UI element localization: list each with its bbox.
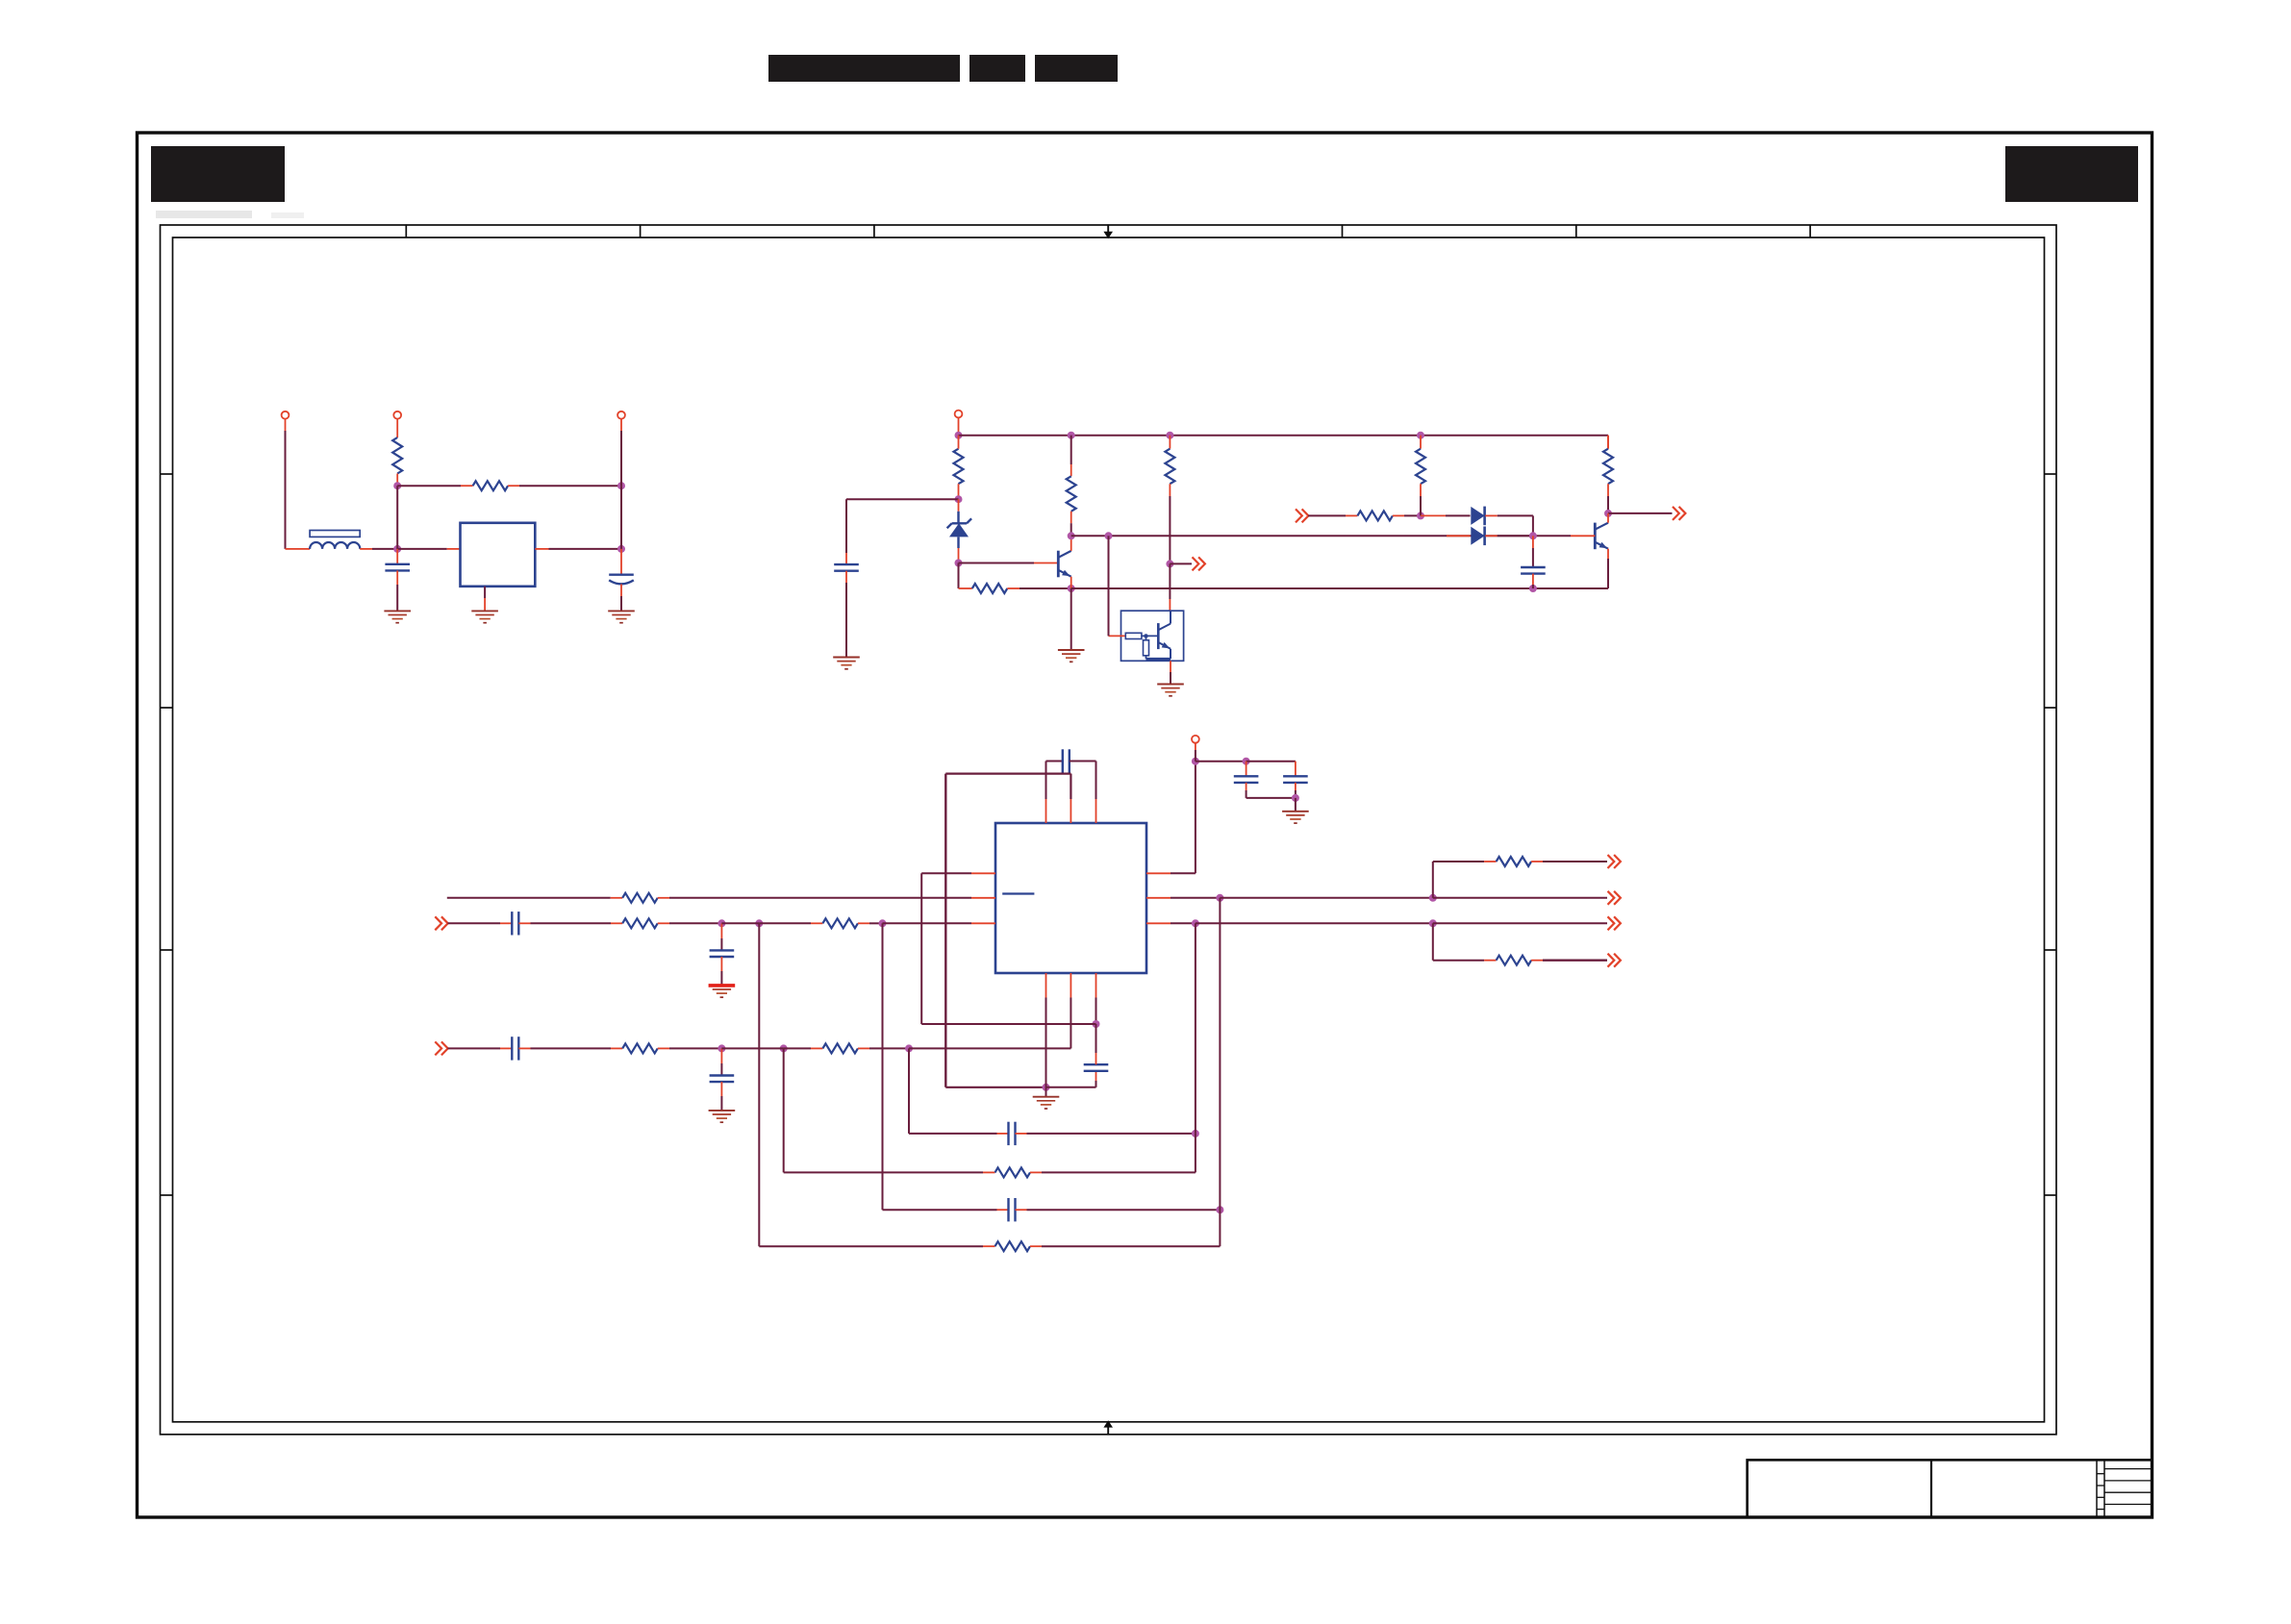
wire node AJ down: [1433, 923, 1497, 960]
wire row A: [447, 897, 622, 899]
wire node AE to corner: [1246, 762, 1296, 777]
wire U3 pin B1 down: [1045, 973, 1047, 1087]
wire node A to C1: [396, 549, 398, 564]
wire node AE to C13: [1246, 762, 1247, 777]
terminal J1: [282, 412, 290, 419]
zener diode D1: [947, 499, 972, 560]
ghost text under top-left box: [156, 211, 304, 218]
capacitor C8: [710, 950, 735, 957]
wire node Q to rail R7: [1420, 436, 1422, 449]
resistor R17: [1497, 956, 1532, 965]
wire node V to node W: [721, 922, 759, 924]
wire row F right: [1030, 1134, 1196, 1173]
wire R12 to node Y: [658, 1047, 722, 1049]
resistor R18: [1067, 476, 1076, 512]
capacitor C1: [385, 564, 410, 571]
ferrite bead L1: [310, 531, 360, 549]
wire node AA drop: [908, 1048, 910, 1134]
wire R6 to node Q: [1393, 514, 1421, 516]
resistor R10: [622, 918, 658, 928]
node X: [879, 919, 887, 927]
wire node X to U3: [883, 922, 996, 924]
redaction box top-right: [2005, 146, 2138, 202]
digital transistor U2: [1109, 611, 1184, 661]
wire Q2 base: [1571, 535, 1595, 537]
node U: [1093, 1020, 1100, 1028]
wire R4 to node L: [1007, 587, 1070, 589]
wire R10 to node V: [658, 922, 722, 924]
wire U3 pin R3: [1146, 922, 1196, 924]
wire node S to output: [1608, 512, 1673, 514]
node Z: [780, 1044, 788, 1052]
wire R7 to node Q: [1420, 484, 1422, 515]
wire C2 to ground: [620, 585, 622, 612]
wire rail to R8: [1607, 436, 1609, 449]
wire node L to ground: [1070, 588, 1072, 650]
wire node P down to U2: [1169, 563, 1171, 611]
wire node C to R2: [397, 485, 472, 487]
node AG: [1216, 894, 1223, 902]
resistor R2: [473, 481, 508, 490]
wire R13 to node AA: [858, 1047, 909, 1049]
transistor Q1: [1058, 551, 1070, 578]
output chevron net3: [1673, 507, 1685, 520]
wire chevron to R6: [1308, 514, 1357, 516]
wire U3 pin R2: [1146, 897, 1220, 899]
terminal J4: [955, 411, 963, 418]
regulator U1: [461, 523, 536, 587]
wire node T to ground: [1045, 1087, 1047, 1097]
ground C3: [833, 658, 860, 669]
wire R1 to node C: [396, 474, 398, 487]
ground C1: [384, 611, 411, 622]
wire bead to node A: [360, 548, 397, 550]
wire node D to node B: [620, 486, 622, 549]
wire C3 to ground: [845, 571, 847, 658]
wire U3 pin B2 down: [1070, 973, 1071, 1048]
wire R8 to node S: [1607, 484, 1609, 513]
node AA: [905, 1044, 913, 1052]
input chevron net5: [435, 1041, 447, 1055]
resistor R14: [995, 1167, 1031, 1177]
wire node AG drop: [1219, 898, 1221, 1210]
wire U1 out to node B: [535, 548, 621, 550]
wire D2 out: [1485, 514, 1533, 516]
wire row A to U3: [658, 897, 995, 899]
ground C14: [1282, 812, 1309, 823]
wire C8 to ground: [720, 957, 722, 986]
ground C10: [709, 1111, 736, 1122]
wire node AD right: [1196, 761, 1246, 762]
node M: [1068, 532, 1075, 539]
node W: [755, 919, 763, 927]
node AJ: [1429, 919, 1437, 927]
resistor R6: [1357, 511, 1393, 520]
wire node I left: [846, 498, 959, 500]
wire node G to R5: [1169, 436, 1171, 449]
wire node X drop: [882, 923, 884, 1210]
wire row G right: [1016, 1209, 1221, 1211]
node AC: [1216, 1206, 1223, 1213]
capacitor C2: [609, 575, 634, 585]
capacitor C5: [1063, 749, 1070, 772]
wire node P to output: [1170, 562, 1192, 564]
capacitor C11: [1009, 1122, 1016, 1145]
wire node Q to D2: [1421, 514, 1471, 516]
capacitor C13: [1234, 776, 1259, 783]
node A: [393, 545, 401, 553]
wire node Y to node Z: [721, 1047, 783, 1049]
border center arrow top: [1103, 224, 1113, 238]
wire node C down: [396, 486, 398, 549]
ground C8: [709, 986, 736, 997]
border center arrow bottom: [1103, 1420, 1113, 1435]
output chevron net8: [1608, 916, 1621, 930]
wire node AI to node AJ: [1196, 922, 1433, 924]
wire D3 out: [1485, 535, 1533, 537]
node AB: [1192, 1130, 1199, 1137]
node O: [1529, 585, 1537, 592]
border frame: [138, 133, 2153, 1517]
wire node W to R11: [759, 922, 822, 924]
node C: [393, 482, 401, 489]
input chevron net4: [435, 916, 447, 930]
resistor R5: [1165, 449, 1174, 485]
capacitor C10: [710, 1076, 735, 1083]
wire node Z to R13: [784, 1047, 823, 1049]
ground C2: [608, 611, 635, 622]
wire R11 to node X: [858, 922, 883, 924]
wire row B in: [448, 922, 513, 924]
resistor R7: [1416, 449, 1425, 485]
node AH: [1429, 894, 1437, 902]
wire J1 down: [285, 419, 287, 549]
wire H1 wrap: [921, 873, 1095, 1024]
node I: [955, 495, 963, 503]
wire row H right: [1030, 1210, 1220, 1246]
node V: [718, 919, 725, 927]
wire row F left: [784, 1171, 995, 1173]
node R: [1529, 532, 1537, 539]
wire U3 pin B3 down: [1095, 973, 1097, 1024]
wire D2 corner down: [1532, 515, 1534, 536]
node B: [617, 545, 625, 553]
wire C7 to R10: [518, 922, 622, 924]
node S: [1604, 510, 1612, 517]
wire node AI drop: [1195, 923, 1196, 1134]
wire Q1 collector up: [1070, 537, 1072, 551]
node G: [1166, 432, 1173, 439]
node L: [1068, 585, 1075, 592]
terminal J3: [617, 412, 625, 419]
node AE: [1243, 758, 1250, 765]
wire left cap drop: [845, 499, 847, 564]
wire node B to C2: [620, 549, 622, 575]
wire node K to Q1 base: [959, 562, 1059, 564]
wire J5 to node AD: [1195, 743, 1196, 762]
output chevron net9: [1608, 954, 1621, 967]
wire Q1 emitter down: [1070, 577, 1072, 588]
node P: [1166, 560, 1173, 567]
wire node R to C4: [1532, 536, 1534, 567]
wire node AA to U3 pin B2: [909, 1047, 1070, 1049]
wire row C in: [448, 1047, 513, 1049]
wire U3 pin T1 up: [1046, 762, 1063, 824]
wire C1 to ground: [396, 570, 398, 611]
node Y: [718, 1044, 725, 1052]
wire R2 to node D: [508, 485, 621, 487]
wire row G left: [883, 1209, 1009, 1211]
capacitor C14: [1283, 776, 1308, 783]
border zone ticks: [161, 224, 2057, 1195]
wire rail to R18: [1070, 436, 1072, 477]
ground U1: [471, 611, 498, 622]
node AD: [1192, 758, 1199, 765]
node E: [955, 432, 963, 439]
redaction box top-left: [151, 146, 285, 202]
capacitor C3: [834, 564, 859, 571]
wire top rail: [959, 435, 1609, 437]
wire node Z drop: [783, 1048, 785, 1172]
ground U3: [1033, 1097, 1060, 1109]
wire mid rail: [1071, 535, 1571, 537]
resistor R4: [972, 584, 1008, 593]
wire node V to C8: [720, 923, 722, 950]
wire rail right down: [1607, 436, 1609, 449]
wire row D right: [1016, 1133, 1196, 1135]
diode D2: [1471, 507, 1484, 526]
wire gnd node to cap corner: [1046, 1071, 1096, 1087]
wire rail to R3: [958, 436, 960, 449]
output chevron net6: [1608, 855, 1621, 868]
wire U2 emitter to ground: [1170, 661, 1171, 684]
node AF: [1292, 794, 1299, 802]
node F: [1068, 432, 1075, 439]
wire node A to U1: [397, 548, 460, 550]
terminal J2: [393, 412, 401, 419]
wire node AG to node AH: [1220, 897, 1432, 899]
wire node AH out: [1433, 897, 1607, 899]
ground U2: [1157, 685, 1184, 696]
node K: [955, 560, 963, 567]
wire C14 down: [1295, 783, 1297, 798]
wire R5 to node P: [1169, 484, 1171, 563]
output chevron net1: [1193, 557, 1205, 570]
wire node AJ out: [1433, 922, 1607, 924]
wire R17 out: [1531, 960, 1607, 962]
title block: [1748, 1460, 2153, 1517]
wire bottom-left corner: [959, 587, 972, 589]
diode D3: [1471, 527, 1484, 546]
resistor R11: [822, 918, 858, 928]
wire U1 gnd pin: [484, 587, 486, 612]
wire row H left: [759, 1245, 994, 1247]
resistor R3: [954, 449, 964, 485]
capacitor C7: [512, 912, 518, 935]
capacitor C6: [1084, 1064, 1109, 1071]
wire C9 to R12: [518, 1047, 622, 1049]
redaction box header 3: [1035, 55, 1118, 82]
wire node U to C6: [1095, 1024, 1097, 1064]
node T: [1043, 1084, 1050, 1091]
node N: [1105, 532, 1113, 539]
wire row D left: [909, 1133, 1009, 1135]
node Q: [1417, 512, 1424, 519]
wire U2 input: [1108, 536, 1110, 636]
output chevron net7: [1608, 891, 1621, 905]
wire C4 to node O: [1532, 574, 1534, 588]
wire node AH up: [1433, 862, 1497, 898]
resistor R16: [1497, 857, 1532, 866]
node D: [617, 482, 625, 489]
wire node K down: [958, 563, 960, 589]
wire mid to D3: [1447, 535, 1471, 537]
wire Q2 emitter down: [1607, 549, 1609, 588]
wire C13 down: [1246, 783, 1296, 798]
resistor R1: [392, 437, 402, 474]
ground Q1 emitter: [1058, 650, 1085, 662]
node H: [1417, 432, 1424, 439]
terminal J5: [1192, 736, 1199, 743]
wire C5 to pin T3: [1070, 762, 1096, 824]
input chevron net2: [1296, 509, 1308, 522]
capacitor C9: [512, 1037, 518, 1060]
resistor R12: [622, 1043, 658, 1053]
wire Q2 collector: [1607, 513, 1609, 523]
resistor R13: [822, 1043, 858, 1053]
wire J3 to node D: [620, 419, 622, 487]
wire R16 out: [1531, 861, 1607, 862]
redaction box header 2: [969, 55, 1025, 82]
redaction box header 1: [768, 55, 960, 82]
capacitor C12: [1009, 1198, 1016, 1221]
IC U3: [995, 823, 1146, 973]
wire C10 to ground: [720, 1082, 722, 1111]
resistor R8: [1603, 449, 1613, 485]
wire bottom rail: [1071, 587, 1608, 589]
wire node Y to C10: [720, 1048, 722, 1075]
wire input to bead: [286, 548, 311, 550]
transistor Q2: [1595, 523, 1608, 550]
wire U3 pin R1 wrap: [1146, 762, 1196, 874]
wire J4 to rail: [958, 417, 960, 435]
node AI: [1192, 919, 1199, 927]
wire R18 to node M: [1070, 512, 1072, 537]
wire U3 pin T2 wrap: [945, 774, 1070, 1087]
wire R3 to node I: [958, 484, 960, 499]
capacitor C4: [1521, 567, 1546, 574]
resistor R9: [622, 893, 658, 903]
resistor R15: [995, 1241, 1031, 1251]
wire node W drop: [758, 923, 760, 1246]
wire node AF to ground: [1295, 798, 1297, 812]
wire J2 to R1: [396, 419, 398, 437]
